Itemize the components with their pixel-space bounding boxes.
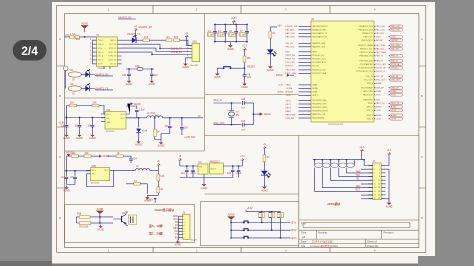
svg-text:U2A: U2A bbox=[106, 109, 111, 112]
wire bbox=[66, 106, 68, 118]
svg-text:PB1_CH4: PB1_CH4 bbox=[391, 30, 399, 32]
svg-text:第5、12脚: 第5、12脚 bbox=[149, 223, 163, 228]
junction bbox=[169, 117, 170, 118]
wire bbox=[92, 40, 94, 64]
crystal Y2 8M bbox=[228, 111, 239, 117]
resistor RJ1 bbox=[315, 163, 323, 168]
key row 1 wire bbox=[231, 222, 290, 224]
svg-text:Date: Date bbox=[301, 239, 307, 243]
svg-text:PA3/USART2_RX: PA3/USART2_RX bbox=[312, 36, 328, 39]
svg-text:4148: 4148 bbox=[142, 131, 148, 133]
junction bbox=[322, 159, 323, 160]
junction bbox=[138, 117, 139, 118]
svg-text:Number: Number bbox=[318, 231, 327, 235]
svg-text:PA2/USART2_TX: PA2/USART2_TX bbox=[312, 32, 328, 35]
power port +5 bbox=[185, 33, 189, 38]
wire bbox=[114, 169, 136, 171]
svg-text:OSC_IN: OSC_IN bbox=[213, 100, 222, 102]
wire bbox=[108, 156, 131, 158]
svg-text:PB11/I2C2_SDA: PB11/I2C2_SDA bbox=[312, 72, 327, 75]
svg-text:VBAT: VBAT bbox=[312, 84, 318, 87]
IC U1 CH340G bbox=[97, 35, 118, 70]
svg-text:PB5_SDA: PB5_SDA bbox=[376, 44, 386, 47]
wire bbox=[244, 76, 246, 81]
wire bbox=[67, 155, 96, 157]
svg-text:1uF: 1uF bbox=[61, 177, 66, 179]
svg-text:CS: CS bbox=[175, 234, 179, 236]
power port +3.3 bbox=[387, 150, 392, 155]
wire bbox=[122, 39, 132, 41]
junction bbox=[271, 230, 272, 231]
wire bbox=[388, 199, 390, 201]
power port AGND above OLED box bbox=[146, 198, 157, 203]
wire bbox=[217, 68, 222, 71]
wire bbox=[154, 137, 156, 140]
wire bbox=[122, 48, 193, 51]
J1 pin red labels bbox=[187, 45, 189, 61]
wire bbox=[203, 174, 205, 177]
resistor R15 bbox=[157, 187, 164, 193]
LED bbox=[85, 69, 90, 77]
svg-text:R232 14: R232 14 bbox=[109, 48, 116, 50]
svg-text:PA12/USBDP: PA12/USBDP bbox=[361, 87, 373, 90]
wire bbox=[269, 38, 271, 49]
svg-text:PB4/JNTRST: PB4/JNTRST bbox=[361, 40, 373, 42]
svg-text:XI 7: XI 7 bbox=[98, 60, 101, 62]
junction bbox=[151, 68, 152, 69]
junction bbox=[230, 237, 231, 238]
svg-text:MCP6002: MCP6002 bbox=[106, 131, 114, 133]
wire bbox=[149, 39, 166, 41]
svg-text:PB2_BT1: PB2_BT1 bbox=[376, 33, 386, 35]
svg-text:3: 3 bbox=[183, 222, 184, 224]
wire bbox=[177, 216, 180, 240]
svg-text:C: C bbox=[421, 155, 423, 159]
svg-text:Single8: Single8 bbox=[191, 239, 197, 241]
svg-text:PB9_T4: PB9_T4 bbox=[391, 61, 398, 63]
J3 pins bbox=[173, 216, 185, 239]
junction bbox=[181, 117, 182, 118]
svg-text:PD1/OSC_OUT: PD1/OSC_OUT bbox=[312, 59, 326, 61]
svg-text:TMS: TMS bbox=[356, 171, 361, 173]
svg-text:Size: Size bbox=[301, 231, 307, 235]
resistor RJ2 bbox=[322, 163, 330, 168]
zone numbers bbox=[59, 8, 423, 253]
svg-text:8: 8 bbox=[183, 237, 184, 239]
junction bbox=[231, 124, 232, 125]
svg-text:PC13/TAMPER: PC13/TAMPER bbox=[360, 63, 374, 66]
junction bbox=[236, 41, 237, 42]
power port AGND bbox=[227, 214, 235, 224]
jtag pull-up stub bbox=[330, 160, 332, 166]
junction bbox=[338, 159, 339, 160]
RC pair 2 bbox=[269, 212, 275, 231]
jtag pull-up stub bbox=[338, 160, 340, 166]
svg-text:1K: 1K bbox=[72, 94, 75, 96]
junction bbox=[271, 211, 272, 212]
U3 right net labels bbox=[376, 25, 403, 121]
svg-text:VBAT: VBAT bbox=[286, 84, 292, 87]
outer sheet border bbox=[57, 6, 426, 253]
svg-text:15: 15 bbox=[374, 191, 376, 193]
svg-text:USART1_TX: USART1_TX bbox=[127, 33, 141, 36]
resistor RJ5 bbox=[347, 163, 355, 168]
svg-text:PA5/SPI1_SCK: PA5/SPI1_SCK bbox=[312, 46, 326, 49]
svg-text:PB1/ADC9_CH4: PB1/ADC9_CH4 bbox=[359, 29, 373, 32]
U3 left pins bbox=[299, 25, 329, 120]
svg-text:PC13_LE: PC13_LE bbox=[391, 64, 400, 66]
svg-text:+3.3V: +3.3V bbox=[376, 110, 382, 112]
wire bbox=[180, 40, 192, 45]
wire bbox=[76, 217, 79, 223]
capacitor C18 bbox=[241, 99, 246, 109]
wire bbox=[126, 106, 137, 109]
ground AGND bbox=[182, 62, 189, 69]
wire bbox=[230, 221, 232, 238]
svg-text:BS: BS bbox=[175, 237, 179, 239]
RC pair 3 bbox=[277, 212, 283, 238]
junction bbox=[261, 211, 262, 212]
ground AGND bbox=[148, 79, 155, 86]
svg-text:+5V: +5V bbox=[278, 25, 283, 27]
J2 left pins bbox=[369, 166, 373, 199]
ground AGND bbox=[89, 133, 96, 140]
svg-text:19: 19 bbox=[374, 198, 376, 200]
wire bbox=[246, 210, 281, 212]
capacitor C11 bbox=[75, 126, 82, 128]
svg-text:PB14/SPI2_MISO: PB14/SPI2_MISO bbox=[312, 107, 328, 109]
pushbutton bbox=[243, 221, 250, 223]
capacitor C4 bbox=[70, 34, 76, 39]
resistor R3 bbox=[166, 37, 172, 41]
power port AGND right bbox=[260, 112, 271, 116]
U2A pin names bbox=[107, 114, 126, 124]
svg-text:PB13/SPI2_SCK: PB13/SPI2_SCK bbox=[312, 104, 327, 106]
svg-text:DTR# 12: DTR# 12 bbox=[108, 56, 116, 58]
junction bbox=[246, 41, 247, 42]
wire bbox=[386, 155, 390, 165]
svg-text:JNTRST: JNTRST bbox=[376, 40, 385, 42]
svg-text:1K5: 1K5 bbox=[144, 37, 149, 39]
svg-text:JTDI: JTDI bbox=[376, 100, 381, 102]
svg-text:1K: 1K bbox=[117, 153, 120, 155]
svg-text:KEY1: KEY1 bbox=[291, 223, 298, 225]
svg-text:2: 2 bbox=[183, 219, 184, 221]
capacitor C15 bbox=[180, 128, 188, 130]
svg-text:20: 20 bbox=[378, 198, 380, 200]
svg-text:PD0/OSC_IN: PD0/OSC_IN bbox=[312, 55, 324, 57]
svg-text:BOOT0: BOOT0 bbox=[286, 66, 294, 68]
wire bbox=[126, 112, 137, 118]
svg-text:5: 5 bbox=[374, 172, 375, 174]
diode D3 bbox=[136, 129, 148, 133]
svg-text:VOUT: VOUT bbox=[211, 169, 217, 171]
svg-text:B: B bbox=[421, 94, 423, 98]
inner sheet border bbox=[65, 14, 419, 248]
junction bbox=[99, 222, 100, 223]
svg-text:JTDO: JTDO bbox=[391, 37, 396, 39]
svg-text:AGND: AGND bbox=[146, 198, 153, 201]
power port +3.3 bbox=[242, 46, 247, 52]
white strip below page bbox=[52, 256, 418, 264]
svg-text:D: D bbox=[59, 216, 61, 220]
wire bbox=[244, 51, 246, 56]
svg-text:KEY2: KEY2 bbox=[286, 104, 292, 106]
svg-text:TXD 2: TXD 2 bbox=[98, 40, 103, 42]
junction bbox=[154, 117, 155, 118]
power port AGND arrow bbox=[95, 155, 109, 159]
resistor R17 bbox=[263, 155, 270, 162]
svg-text:1K: 1K bbox=[134, 181, 137, 183]
wire bbox=[269, 53, 271, 64]
svg-text:AGND: AGND bbox=[278, 91, 284, 94]
svg-text:PA14/JTCK: PA14/JTCK bbox=[363, 94, 373, 97]
svg-text:3: 3 bbox=[374, 169, 375, 171]
svg-text:PB12/SPI2_NSS: PB12/SPI2_NSS bbox=[312, 100, 327, 102]
wire bbox=[214, 41, 248, 43]
svg-text:PD2_LED: PD2_LED bbox=[286, 62, 296, 64]
svg-text:12M: 12M bbox=[135, 66, 140, 68]
svg-text:8: 8 bbox=[379, 176, 380, 178]
ground AGND bbox=[214, 72, 221, 79]
junction bbox=[225, 41, 226, 42]
capacitor C1 bbox=[207, 31, 217, 37]
power port AGND arrow bbox=[276, 74, 294, 78]
power port AGND bbox=[96, 208, 104, 218]
svg-text:2.2uF: 2.2uF bbox=[139, 110, 145, 112]
regulator U4 bbox=[198, 162, 208, 174]
LED bbox=[267, 49, 277, 56]
svg-text:VCC 16: VCC 16 bbox=[109, 44, 116, 46]
svg-text:10K: 10K bbox=[85, 153, 90, 155]
svg-text:10uF: 10uF bbox=[236, 173, 242, 175]
svg-text:OSC_OUT: OSC_OUT bbox=[364, 80, 374, 82]
ground AGND bbox=[227, 43, 234, 51]
svg-text:USB_DP: USB_DP bbox=[376, 88, 385, 90]
junction bbox=[214, 41, 215, 42]
svg-text:D: D bbox=[421, 216, 423, 220]
junction bbox=[330, 159, 331, 160]
capacitor C21 bbox=[61, 177, 68, 179]
wire bbox=[118, 18, 136, 20]
power port AGND small bbox=[66, 152, 73, 157]
key row 2 wire bbox=[231, 229, 290, 231]
svg-text:11: 11 bbox=[374, 183, 376, 185]
svg-text:AGND: AGND bbox=[214, 76, 221, 79]
wire bbox=[213, 102, 241, 104]
svg-text:File: File bbox=[301, 244, 306, 248]
svg-text:RST: RST bbox=[356, 190, 361, 192]
svg-text:U2B: U2B bbox=[92, 166, 97, 168]
svg-text:PA11/USBDM: PA11/USBDM bbox=[312, 117, 324, 120]
svg-text:PB10/I2C2_SCL: PB10/I2C2_SCL bbox=[312, 70, 326, 72]
ground AGND bbox=[63, 133, 70, 140]
svg-text:4: 4 bbox=[379, 169, 380, 171]
capacitor C23 bbox=[185, 170, 189, 171]
svg-text:TDO: TDO bbox=[356, 186, 361, 188]
junction bbox=[346, 159, 347, 160]
svg-text:+3.3V: +3.3V bbox=[376, 119, 382, 121]
svg-text:17: 17 bbox=[374, 194, 376, 196]
wire bbox=[263, 175, 265, 185]
ground AGND bbox=[63, 186, 70, 193]
svg-text:7: 7 bbox=[374, 176, 375, 178]
svg-text:PB5_SDA: PB5_SDA bbox=[391, 44, 400, 47]
transistor Q1 bbox=[113, 213, 126, 224]
wire bbox=[241, 161, 243, 166]
wire bbox=[126, 212, 128, 226]
svg-text:AGND: AGND bbox=[182, 66, 189, 69]
svg-text:+3.3V: +3.3V bbox=[286, 95, 292, 97]
wire bbox=[246, 24, 248, 41]
svg-text:TCK: TCK bbox=[356, 175, 361, 177]
junction bbox=[192, 165, 193, 166]
ground AGND bbox=[174, 240, 181, 247]
svg-text:1K: 1K bbox=[272, 33, 275, 35]
svg-text:PB6_SCL: PB6_SCL bbox=[376, 49, 386, 51]
jtag chain end stub bbox=[353, 160, 355, 166]
LED bbox=[85, 83, 90, 91]
svg-text:AGND: AGND bbox=[97, 208, 104, 211]
svg-text:6: 6 bbox=[183, 231, 184, 233]
wire bbox=[65, 75, 67, 89]
wire bbox=[361, 152, 363, 160]
wire bbox=[263, 149, 265, 155]
connector J2 JTAG bbox=[373, 161, 382, 199]
ground AGND bbox=[144, 195, 151, 202]
wire bbox=[67, 179, 76, 185]
jtag pull-up stub bbox=[314, 160, 316, 166]
wire bbox=[90, 89, 113, 90]
svg-text:1K5: 1K5 bbox=[174, 37, 179, 39]
wire bbox=[169, 118, 171, 126]
wire bbox=[122, 44, 189, 48]
svg-text:AGND: AGND bbox=[148, 83, 155, 86]
svg-text:第7、20脚: 第7、20脚 bbox=[149, 230, 163, 235]
junction bbox=[66, 117, 67, 118]
svg-text:KEY3: KEY3 bbox=[286, 107, 292, 109]
wire bbox=[224, 24, 226, 41]
resistor R6 bbox=[70, 103, 77, 107]
svg-text:2/4: 2/4 bbox=[21, 44, 38, 58]
svg-text:PRST_TX: PRST_TX bbox=[286, 59, 296, 61]
junction bbox=[159, 48, 160, 49]
wire bbox=[244, 102, 253, 104]
svg-text:PB0_CH3: PB0_CH3 bbox=[391, 26, 399, 28]
wire bbox=[67, 156, 132, 171]
resistor R1 bbox=[68, 70, 81, 82]
resistor R12 bbox=[84, 153, 91, 157]
svg-text:PB7/I2C1_SDA: PB7/I2C1_SDA bbox=[360, 51, 374, 54]
svg-text:AGND: AGND bbox=[81, 22, 88, 25]
junction bbox=[230, 230, 231, 231]
U2A pins bbox=[101, 114, 130, 122]
connector P2 bbox=[129, 215, 137, 224]
svg-text:AGND: AGND bbox=[391, 106, 397, 109]
wire bbox=[386, 169, 390, 199]
J2 pin numbers bbox=[374, 165, 381, 200]
svg-text:AGND: AGND bbox=[103, 155, 110, 158]
svg-text:KEY2: KEY2 bbox=[291, 230, 298, 232]
wire bbox=[101, 222, 113, 224]
svg-text:7: 7 bbox=[183, 234, 184, 236]
wire bbox=[230, 103, 232, 125]
svg-text:14: 14 bbox=[378, 187, 380, 189]
svg-text:10K: 10K bbox=[72, 153, 77, 155]
wire bbox=[244, 62, 246, 75]
svg-text:AGND: AGND bbox=[76, 137, 83, 140]
svg-text:PB10_SCL: PB10_SCL bbox=[286, 70, 297, 72]
darker strip at bottom bbox=[0, 263, 418, 266]
wire bbox=[244, 124, 253, 126]
svg-text:RESET: RESET bbox=[247, 67, 255, 69]
wire bbox=[186, 58, 193, 62]
capacitor C3 bbox=[150, 74, 158, 77]
page badge 2/4 bbox=[13, 40, 47, 61]
svg-text:R19 10K: R19 10K bbox=[79, 227, 88, 229]
svg-text:OSC_IN: OSC_IN bbox=[376, 76, 384, 78]
U3 left net labels bbox=[286, 26, 298, 120]
svg-text:VDD_1: VDD_1 bbox=[312, 95, 318, 97]
capacitor C20 bbox=[129, 159, 137, 161]
svg-text:10: 10 bbox=[378, 180, 380, 182]
svg-text:VSS_1: VSS_1 bbox=[367, 83, 373, 85]
svg-text:USB_DP: USB_DP bbox=[391, 88, 399, 90]
svg-text:UD- 6: UD- 6 bbox=[98, 56, 103, 58]
inductor L1 bbox=[147, 113, 163, 118]
svg-text:SPI_CLK: SPI_CLK bbox=[286, 47, 295, 49]
U1 left pin numbers bbox=[90, 39, 92, 65]
svg-text:JTDO: JTDO bbox=[376, 37, 382, 39]
pushbutton bbox=[222, 67, 232, 69]
svg-text:+3.3V: +3.3V bbox=[278, 85, 284, 87]
svg-text:OSC_IN: OSC_IN bbox=[366, 76, 374, 78]
wire bbox=[235, 24, 237, 41]
resistor R9 bbox=[243, 56, 251, 62]
svg-text:STM32F103C8T6: STM32F103C8T6 bbox=[328, 124, 343, 126]
resistor R7 bbox=[92, 103, 99, 107]
svg-text:VDD: VDD bbox=[121, 114, 126, 116]
junction bbox=[280, 237, 281, 238]
svg-text:AGND: AGND bbox=[134, 103, 141, 106]
junction bbox=[225, 24, 226, 25]
svg-text:AGND: AGND bbox=[376, 114, 382, 117]
wire bbox=[233, 23, 235, 25]
pushbutton bbox=[243, 236, 250, 238]
svg-text:RI# 10: RI# 10 bbox=[110, 64, 116, 66]
svg-text:51K: 51K bbox=[93, 103, 98, 105]
wire bbox=[213, 124, 241, 126]
resistor R11 bbox=[71, 153, 78, 157]
junction bbox=[261, 222, 262, 223]
ground AGND bbox=[201, 182, 208, 190]
wire bbox=[138, 118, 140, 128]
svg-text:GND 1: GND 1 bbox=[110, 40, 116, 42]
svg-text:PB12: PB12 bbox=[368, 103, 373, 105]
svg-text:CH340_TX: CH340_TX bbox=[171, 49, 183, 51]
svg-text:VDD_2: VDD_2 bbox=[367, 110, 373, 112]
svg-text:Drawn By:: Drawn By: bbox=[367, 244, 379, 248]
svg-text:AGND: AGND bbox=[261, 189, 268, 192]
wire bbox=[65, 117, 106, 119]
svg-text:C: C bbox=[59, 155, 61, 159]
junction bbox=[214, 24, 215, 25]
svg-text:AGND: AGND bbox=[264, 113, 271, 116]
junction bbox=[231, 102, 232, 103]
wire bbox=[233, 166, 239, 170]
wire bbox=[99, 217, 101, 223]
svg-text:JTMS: JTMS bbox=[391, 91, 397, 93]
